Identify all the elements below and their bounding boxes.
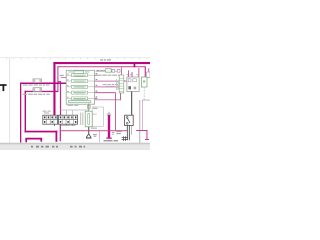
wire drop to page edge bbox=[56, 131, 58, 142]
connector grid X1 bbox=[43, 115, 58, 124]
ECU pin row 4 box bbox=[72, 91, 88, 94]
wire inner bus horizontal bbox=[57, 65, 145, 68]
ECU pin row 1 wire bbox=[66, 74, 94, 77]
cable top corner bbox=[142, 99, 150, 102]
trunk label bbox=[104, 140, 113, 141]
ECU right pin stubs bbox=[95, 75, 98, 99]
ECU pin numbers bbox=[96, 73, 98, 98]
sensor ground lead bbox=[87, 127, 90, 134]
grid top grey feed bbox=[60, 109, 89, 112]
wire right edge vertical bbox=[147, 68, 150, 78]
wire amplifier vertical bbox=[119, 80, 122, 100]
page arrow connector bbox=[106, 111, 111, 115]
wire left drop to edge bbox=[98, 131, 101, 142]
wire ladder feed bbox=[120, 67, 123, 75]
text NG bbox=[93, 134, 97, 137]
wire main bus left vertical bbox=[53, 62, 55, 116]
relay pin numbers bbox=[127, 74, 138, 75]
ECU pin row 1 box bbox=[72, 74, 88, 77]
sensor S1 bbox=[85, 103, 92, 126]
wire sensor link horizontal bbox=[60, 129, 127, 132]
fuse F2 bbox=[33, 88, 42, 92]
component row mid bbox=[96, 69, 121, 73]
page bottom edge bbox=[0, 142, 150, 145]
wire pin2 to relay bbox=[95, 80, 128, 83]
wire trunk foot bbox=[106, 138, 112, 139]
wire below grid vertical bbox=[60, 124, 61, 141]
wire fuse row 2 bbox=[25, 91, 59, 92]
text row under components bbox=[96, 75, 121, 76]
relay K1 bbox=[127, 77, 139, 92]
wire trunk heavy vertical bbox=[108, 115, 110, 138]
connector staple bottom left bbox=[26, 139, 41, 143]
ECU left pin A15 wire bbox=[61, 76, 67, 79]
wire main bus top horizontal bbox=[53, 62, 150, 64]
wire grid feed vertical bbox=[60, 81, 61, 115]
ground G1 bbox=[86, 134, 91, 139]
amplifier label text bbox=[103, 84, 119, 87]
wire pin4 drop bbox=[95, 93, 116, 131]
wire inner bus vertical bbox=[57, 66, 58, 92]
ECU pin row 3 box bbox=[72, 85, 88, 88]
ground label bbox=[91, 128, 97, 129]
switch label bbox=[116, 131, 122, 132]
ECU pin row 5 wire bbox=[66, 97, 94, 100]
wire diode drop bbox=[145, 66, 146, 77]
fuse F2 label bbox=[23, 94, 50, 95]
lamp switch SW1 bbox=[125, 115, 134, 125]
page left edge bbox=[8, 58, 11, 143]
status bar bbox=[0, 144, 150, 150]
resistor ladder RL1 bbox=[119, 75, 124, 93]
wire amplifier top stub bbox=[120, 79, 125, 82]
ECU left pin marks bbox=[67, 74, 68, 98]
text under ECU bbox=[68, 105, 79, 106]
ECU pin row 2 box bbox=[72, 80, 88, 83]
status bar text bbox=[31, 146, 85, 148]
ladder rotated label bbox=[116, 79, 118, 90]
bar side text bbox=[112, 132, 115, 135]
shielded cable dashes bbox=[143, 87, 145, 100]
wire right corner drop bbox=[146, 130, 149, 140]
wire bottom left horizontal bbox=[25, 131, 58, 133]
ECU pin row 4 wire bbox=[66, 91, 94, 94]
text above bus bbox=[100, 59, 111, 60]
switch pins down bbox=[127, 126, 130, 141]
fuse F1 bbox=[33, 79, 42, 83]
ruler line bbox=[0, 57, 150, 59]
grid area small text bbox=[61, 125, 70, 126]
wire grid feed stub bbox=[57, 81, 61, 82]
cable pair verticals bbox=[138, 100, 141, 143]
grey box 4WD bbox=[92, 107, 103, 126]
wire lamp black vertical bbox=[131, 92, 132, 116]
ECU bottom label bbox=[68, 101, 91, 103]
wire relay pin drops bbox=[128, 68, 139, 77]
wire right foot tick bbox=[145, 138, 149, 141]
wire right lower horizontal bbox=[136, 129, 147, 132]
fuse F1 label bbox=[23, 84, 50, 85]
sensor rotated label bbox=[80, 113, 83, 126]
chassis ground hash bbox=[122, 136, 128, 141]
ECU pin row 3 wire bbox=[66, 86, 94, 89]
wire amplifier bottom horizontal bbox=[95, 98, 121, 101]
wire fuse row 1 bbox=[20, 83, 66, 85]
wire relay branch vertical bbox=[134, 63, 136, 68]
wire left outer vertical bbox=[20, 83, 21, 143]
grid label text bbox=[43, 111, 51, 114]
wire left inner vertical bbox=[25, 91, 26, 133]
grid pin ticks below bbox=[54, 124, 73, 126]
ECU U1 title bbox=[74, 71, 84, 74]
diode box D1 bbox=[141, 77, 147, 87]
connector grid X2 bbox=[58, 115, 77, 124]
ECU pin row 2 wire bbox=[66, 80, 94, 83]
ECU U1 box bbox=[66, 70, 94, 104]
wire pin3 right bbox=[95, 86, 121, 89]
terminal box right edge bbox=[146, 72, 150, 78]
ECU pin row 5 box bbox=[72, 97, 88, 100]
label text T bbox=[0, 84, 7, 91]
sensor right stub bbox=[92, 113, 97, 116]
ECU left pin label bbox=[60, 75, 64, 76]
